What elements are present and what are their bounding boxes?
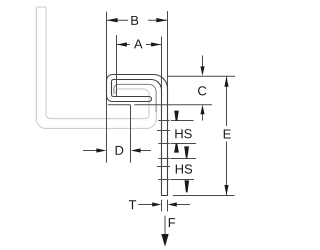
label D	[116, 146, 124, 155]
extension line A-right (x=161.5)	[161, 37, 163, 93]
HS1 bottom wedge arrow (up)	[174, 144, 179, 153]
dimension T left arrow	[138, 204, 153, 206]
extension line C-bottom / lip plane (y=104.7)	[108, 104, 131, 106]
hem slot line 2 (y=143.5)	[158, 143, 169, 145]
dimension T right arrow	[176, 204, 190, 206]
extension line E-bottom (y=195.5)	[173, 195, 235, 197]
trim profile (dark curl + nailing strip)	[107, 75, 168, 196]
label F	[169, 218, 175, 227]
label E	[224, 130, 231, 139]
label HS2	[176, 165, 183, 174]
dimension C bottom arrow	[202, 112, 204, 121]
label C	[198, 86, 206, 95]
HS2 bottom wedge arrow (down)	[185, 180, 190, 192]
dimension C top arrow	[202, 56, 204, 69]
panel hook outer fold (medium gray)	[114, 84, 156, 112]
HS2 top wedge arrow (down)	[184, 146, 189, 157]
F flow arrow	[164, 216, 166, 236]
label HS1	[175, 129, 182, 138]
label B	[131, 16, 138, 25]
dimension A line	[117, 44, 130, 46]
extension line C-top (y=75.5)	[168, 75, 235, 77]
dimension B arrowheads	[107, 18, 118, 22]
extension line T-right	[167, 200, 169, 212]
hem slot line 1 (y=120.5)	[158, 120, 169, 122]
siding panel face outer line (light gray)	[36, 7, 156, 128]
extension line T-left	[161, 200, 163, 212]
label T	[129, 200, 136, 209]
extension line A-left (x=116.5)	[116, 35, 118, 97]
HS1 top wedge arrow (down)	[174, 111, 179, 121]
dimension E arrowheads	[224, 76, 228, 86]
label A	[134, 39, 143, 48]
hem slot line 3 (y=158.5)	[158, 158, 169, 160]
dimension B line	[107, 19, 128, 21]
extension line left (B/D common, x=106.5)	[106, 12, 108, 163]
extension line B-right (x=167.5)	[167, 11, 169, 90]
dimension D left arrow	[83, 150, 97, 152]
siding panel face inner line + hook inner (light gray)	[46, 7, 149, 119]
dimension A arrowheads	[117, 42, 127, 46]
dimension D right arrow	[139, 150, 151, 152]
strip tick at HS2 label (y=166.5)	[157, 166, 170, 168]
strip tick at HS1 label (y=130.5)	[157, 130, 170, 132]
extension line D-right (x=130.5)	[130, 105, 132, 163]
dimension E line	[226, 76, 228, 126]
hem slot line 4 (y=179.5)	[158, 179, 169, 181]
